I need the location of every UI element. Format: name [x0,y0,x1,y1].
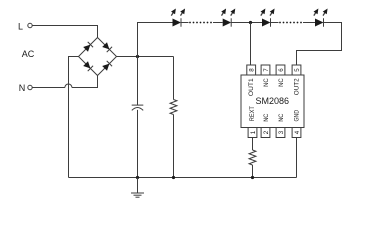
svg-text:4: 4 [294,130,301,134]
pin 3 [276,128,285,138]
dotted continuation of LED string 1 [189,22,212,24]
bridge diode bottom-right [102,61,112,71]
wire LED string 2 end to pin 5 [297,23,342,66]
pin 1 [248,128,257,138]
terminal L [28,23,32,27]
svg-text:3: 3 [278,130,285,134]
svg-text:AC: AC [22,49,35,59]
bridge rectifier diamond [79,38,117,76]
LED D3 [259,7,277,26]
capacitor C1 [132,104,144,106]
node R2 ground junction [251,176,254,179]
svg-text:REXT: REXT [249,106,256,121]
bridge diode top-left [83,42,93,52]
svg-text:2: 2 [263,130,270,134]
svg-text:8: 8 [248,68,255,72]
wire L to bridge top vertex [32,26,97,38]
wire hop where N crosses DC-minus line [65,84,72,87]
wire D1 to dots [181,22,189,24]
wire D2 to D3 through node [231,22,262,24]
wire pin 4 to ground rail [296,138,298,178]
pin 2 [261,128,270,138]
wire bridge DC-plus rail [117,56,174,58]
wire junction down to pin 8 [250,23,252,66]
wire R2 to ground rail [252,165,254,178]
wire junction to capacitor C1 [137,57,139,106]
wire D3 to dots [271,22,279,24]
LED D1 [169,7,187,26]
wire R1 to ground rail [173,115,175,178]
wire DC-plus rail down to resistor R1 [173,57,175,100]
wire C1 to ground rail [137,110,139,178]
svg-text:SM2086: SM2086 [256,96,290,106]
wire ground rail [69,177,297,179]
svg-text:5: 5 [294,68,301,72]
svg-text:NC: NC [263,114,270,122]
svg-text:NC: NC [278,78,285,87]
wire pin 1 to resistor R2 [252,138,254,151]
pin 8 [247,65,256,75]
wire dots to D4 [303,22,315,24]
dotted continuation of LED string 2 [279,22,302,24]
wire bridge DC-minus down left side to ground rail [69,57,79,178]
node C1 ground junction [136,176,139,179]
bridge diode bottom-left [83,61,93,71]
svg-text:L: L [18,22,23,32]
svg-text:N: N [19,83,26,93]
svg-text:6: 6 [278,68,285,72]
node LED strings junction to pin 8 [249,21,252,24]
svg-text:GND: GND [293,110,300,122]
resistor R1 [170,100,177,115]
LED D2 [219,7,237,26]
pin 7 [261,65,270,75]
wire DC-plus up to LED string 1 [138,23,173,57]
pin 6 [276,65,285,75]
svg-text:1: 1 [250,130,257,134]
pin 4 [292,128,301,138]
svg-text:OUT1: OUT1 [248,78,255,96]
svg-text:NC: NC [278,114,285,122]
svg-text:OUT2: OUT2 [293,78,300,95]
ground symbol [131,178,144,198]
svg-text:7: 7 [263,68,270,72]
LED D4 [312,7,330,26]
node DC-plus junction [136,55,139,58]
terminal N [28,85,32,89]
IC U1 SM2086 body [241,75,304,128]
resistor R2 REXT [249,150,256,165]
wire dots to D2 [213,22,223,24]
node R1 ground junction [172,176,175,179]
wire N to bridge bottom vertex [32,76,97,88]
svg-text:NC: NC [263,78,270,87]
bridge diode top-right [102,42,112,52]
pin 5 [292,65,301,75]
